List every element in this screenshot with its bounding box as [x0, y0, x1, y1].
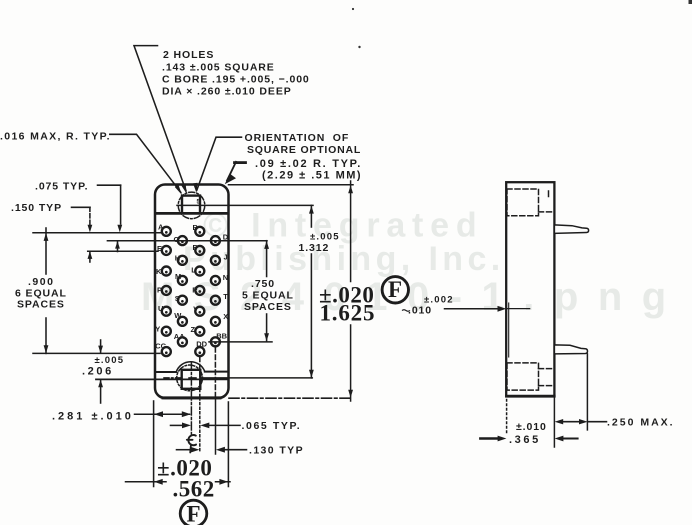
svg-text:R: R [192, 285, 198, 294]
svg-text:Y: Y [155, 325, 160, 334]
svg-text:.075 TYP.: .075 TYP. [35, 181, 88, 193]
svg-text:AA: AA [174, 332, 185, 341]
svg-text:A: A [158, 223, 164, 232]
svg-text:±.010: ±.010 [516, 421, 547, 433]
svg-text:F: F [187, 502, 202, 525]
svg-text:Z: Z [191, 325, 196, 334]
svg-text:.750: .750 [251, 278, 275, 290]
svg-text:.250 MAX.: .250 MAX. [607, 417, 675, 429]
svg-text:X: X [223, 312, 228, 321]
svg-text:U: U [158, 304, 163, 313]
svg-text:.143 ±.005 SQUARE: .143 ±.005 SQUARE [162, 62, 275, 74]
svg-text:N: N [223, 273, 228, 282]
svg-text:D: D [223, 233, 229, 242]
svg-text:M: M [175, 272, 181, 281]
svg-text:1.625: 1.625 [320, 301, 376, 326]
svg-text:.065 TYP.: .065 TYP. [242, 420, 302, 432]
svg-text:±.005: ±.005 [95, 355, 125, 366]
svg-text:.562: .562 [173, 477, 215, 502]
svg-text:DIA × .260 ±.010 DEEP: DIA × .260 ±.010 DEEP [162, 86, 292, 98]
svg-text:Publishing, Inc.: Publishing, Inc. [183, 240, 505, 278]
svg-text:SPACES: SPACES [17, 299, 65, 311]
svg-text:BB: BB [216, 332, 227, 341]
svg-text:P: P [157, 285, 162, 294]
svg-text:CC: CC [155, 342, 166, 351]
svg-text:(2.29 ± .51 MM): (2.29 ± .51 MM) [262, 170, 362, 182]
svg-text:.016 MAX, R. TYP.: .016 MAX, R. TYP. [0, 130, 111, 142]
svg-text:2 HOLES: 2 HOLES [163, 49, 214, 61]
svg-text:SQUARE OPTIONAL: SQUARE OPTIONAL [247, 144, 361, 156]
svg-text:.150 TYP: .150 TYP [11, 202, 62, 214]
svg-text:.010: .010 [408, 305, 432, 317]
svg-text:K: K [156, 267, 162, 276]
svg-text:DD: DD [196, 340, 207, 349]
svg-text:E: E [157, 244, 162, 253]
svg-text:C BORE .195 +.005, −.000: C BORE .195 +.005, −.000 [162, 74, 310, 86]
svg-text:SPACES: SPACES [244, 301, 292, 313]
svg-text:F: F [193, 243, 198, 252]
svg-text:B: B [193, 223, 199, 232]
svg-text:ORIENTATION OF: ORIENTATION OF [245, 132, 350, 144]
svg-text:.365: .365 [509, 434, 541, 446]
svg-text:.206: .206 [82, 366, 114, 378]
svg-text:±.005: ±.005 [310, 232, 340, 243]
svg-text:H: H [175, 254, 180, 263]
svg-text:T: T [223, 292, 228, 301]
svg-text:1.312: 1.312 [299, 242, 330, 254]
svg-text:V: V [193, 305, 198, 314]
svg-text:S: S [175, 294, 180, 303]
svg-text:.281 ±.010: .281 ±.010 [52, 411, 134, 423]
svg-text:J: J [224, 253, 228, 262]
svg-text:W: W [174, 311, 182, 320]
svg-text:.09 ±.02 R. TYP.: .09 ±.02 R. TYP. [255, 158, 362, 170]
svg-text:© Integrated: © Integrated [203, 207, 483, 245]
svg-text:.900: .900 [28, 276, 54, 288]
svg-text:C: C [174, 235, 180, 244]
svg-text:L: L [191, 265, 196, 274]
svg-text:.130 TYP: .130 TYP [249, 445, 304, 457]
svg-text:5 EQUAL: 5 EQUAL [242, 290, 294, 302]
svg-text:F: F [388, 277, 403, 302]
